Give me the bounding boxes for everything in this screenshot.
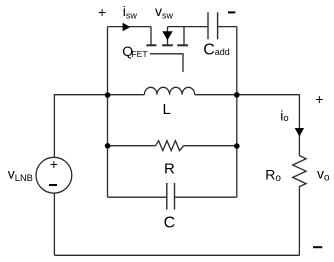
capacitor C left plate xyxy=(166,183,168,210)
svg-text:+: + xyxy=(315,91,323,107)
label minus bottom-right xyxy=(313,246,322,248)
source minus sign xyxy=(49,184,57,186)
wire left column top (source top to rail) xyxy=(54,95,107,158)
node A lower junction dot xyxy=(105,143,111,149)
transistor QFET body stem xyxy=(167,27,169,45)
wire Ro bottom to ground rail xyxy=(298,189,300,255)
svg-text:+: + xyxy=(98,4,106,20)
wire inductor branch right xyxy=(195,94,237,96)
wire resistor branch left xyxy=(108,145,156,147)
transistor QFET channel bar left xyxy=(146,44,156,46)
transistor QFET channel bar right xyxy=(177,44,188,46)
transistor QFET right stub xyxy=(183,27,185,45)
transistor QFET gate xyxy=(150,54,183,72)
wire top rail segment 1 (node A corner to FET left stub) xyxy=(108,26,152,28)
inductor L xyxy=(144,87,194,94)
capacitor C right plate xyxy=(174,183,176,210)
wire resistor branch right xyxy=(184,145,237,147)
svg-text:L: L xyxy=(163,101,171,118)
resistor Ro xyxy=(293,156,306,189)
wire output rail xyxy=(237,95,300,156)
transistor QFET left stub xyxy=(150,27,152,45)
node B junction dot xyxy=(234,92,240,98)
current io arrow xyxy=(295,128,304,137)
transistor QFET body arrow xyxy=(162,31,172,40)
wire left LRC column xyxy=(107,27,109,198)
label minus top-right xyxy=(228,11,235,13)
svg-text:C: C xyxy=(164,214,176,231)
node B lower junction dot xyxy=(234,143,240,149)
capacitor Cadd right plate xyxy=(217,12,219,39)
wire right LRC column xyxy=(236,27,238,198)
svg-text:R: R xyxy=(164,160,175,177)
transistor QFET channel bar middle xyxy=(162,44,173,46)
wire capacitor branch left xyxy=(108,196,167,198)
resistor R xyxy=(156,141,184,151)
source vLNB circle xyxy=(36,157,72,193)
wire source bottom xyxy=(53,193,55,255)
node A junction dot xyxy=(105,92,111,98)
wire inductor branch left xyxy=(108,94,145,96)
capacitor Cadd left plate xyxy=(207,12,209,39)
wire bottom rail xyxy=(54,254,299,256)
wire top rail segment 3 (Cadd right plate to right column) xyxy=(218,26,237,28)
wire capacitor branch right xyxy=(175,196,237,198)
current isw arrow xyxy=(123,23,131,32)
wire top rail segment 2 (FET body to Cadd left plate) xyxy=(168,26,209,28)
svg-text:+: + xyxy=(50,156,58,172)
